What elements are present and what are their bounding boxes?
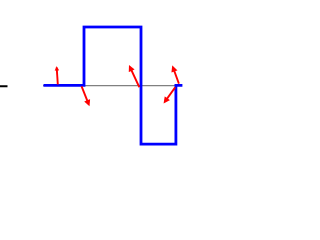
arrow C up-left at fall edge — [130, 67, 140, 88]
label v dash at left edge — [0, 85, 8, 87]
arrow B down-right at rise edge — [82, 86, 89, 104]
square wave — [44, 27, 183, 144]
arrow E up-left at right riser — [173, 67, 179, 84]
time axis — [43, 85, 175, 87]
arrow A up at x=57 — [57, 67, 58, 84]
arrow D down-left at right riser — [165, 87, 176, 102]
